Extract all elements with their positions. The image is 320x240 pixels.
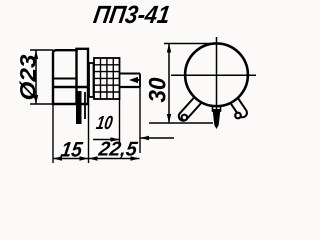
bushing (knurled) xyxy=(94,58,120,99)
extension lines bottom xyxy=(53,74,140,164)
svg-text:Ø23: Ø23 xyxy=(16,55,41,101)
dimension 10 xyxy=(93,138,174,140)
washer xyxy=(89,63,94,97)
svg-text:15: 15 xyxy=(59,139,84,162)
right lug hole xyxy=(235,113,241,119)
dimension 30 xyxy=(164,44,216,124)
bottom dimension line xyxy=(53,158,140,160)
svg-text:22,5: 22,5 xyxy=(96,139,139,161)
shaft slot arrow xyxy=(129,77,141,83)
right lug (front view) xyxy=(228,94,249,119)
terminal lug (side view) xyxy=(76,91,82,124)
horizontal centerline xyxy=(171,74,256,76)
svg-text:ПП3-41: ПП3-41 xyxy=(92,1,172,29)
left lug hole xyxy=(182,115,188,121)
case circle (front view) xyxy=(185,43,248,106)
dimension Ø23 xyxy=(30,50,53,104)
center lug black wedge xyxy=(213,109,221,129)
svg-text:30: 30 xyxy=(145,77,172,103)
body (side view) xyxy=(53,49,88,104)
left lug (front view) xyxy=(177,95,203,123)
terminal lug 2 (side view) xyxy=(84,92,86,119)
shaft xyxy=(120,74,141,88)
center lug (front view) xyxy=(213,98,221,111)
vertical centerline xyxy=(216,37,218,113)
baseline xyxy=(149,122,213,124)
